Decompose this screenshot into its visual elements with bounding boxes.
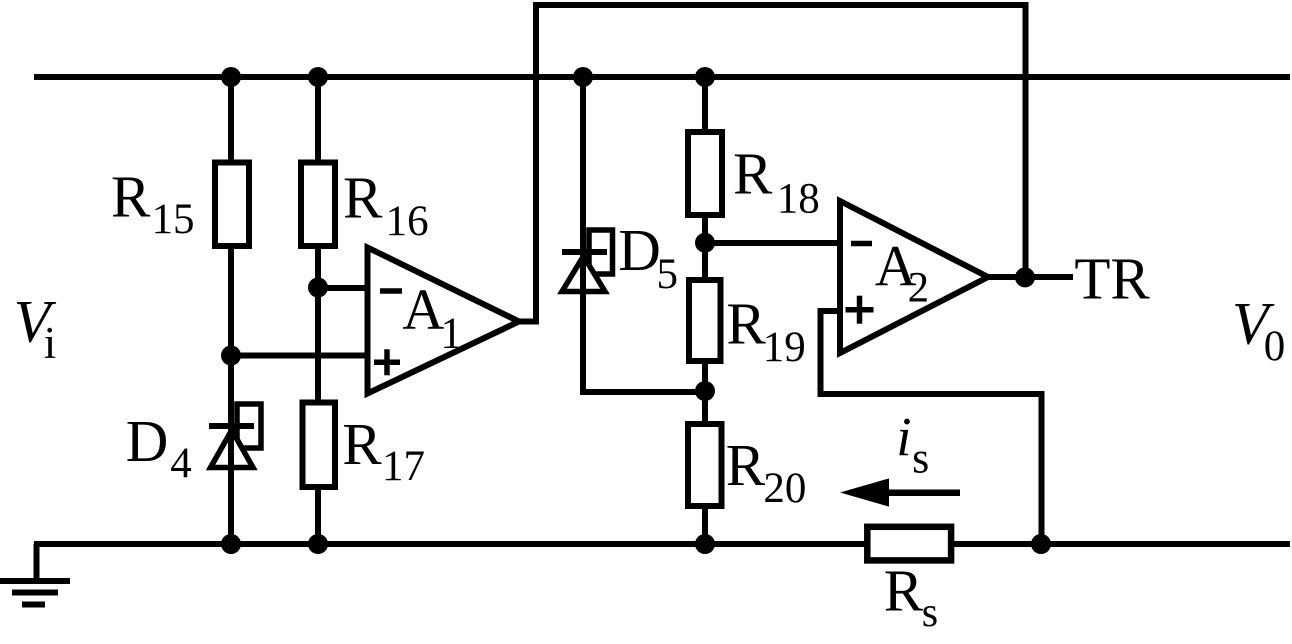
svg-text:19: 19 [763, 324, 806, 371]
svg-text:15: 15 [152, 196, 195, 243]
svg-text:D: D [126, 408, 169, 474]
svg-text:R: R [726, 432, 766, 498]
svg-text:17: 17 [382, 443, 425, 490]
svg-text:R: R [111, 164, 151, 230]
svg-text:i: i [896, 406, 911, 467]
svg-text:4: 4 [170, 440, 192, 487]
svg-text:A: A [402, 277, 444, 342]
svg-text:D: D [618, 217, 661, 283]
svg-text:TR: TR [1074, 246, 1150, 312]
svg-text:i: i [44, 318, 57, 368]
svg-text:0: 0 [1264, 323, 1286, 370]
svg-text:1: 1 [440, 309, 462, 358]
svg-text:R: R [342, 411, 382, 477]
svg-text:16: 16 [386, 198, 429, 245]
svg-text:s: s [922, 590, 938, 636]
svg-text:R: R [726, 291, 766, 357]
svg-text:20: 20 [763, 465, 806, 512]
svg-text:R: R [884, 558, 924, 624]
svg-text:2: 2 [908, 265, 930, 312]
svg-text:s: s [912, 434, 929, 483]
svg-text:18: 18 [777, 175, 820, 222]
svg-text:5: 5 [657, 251, 679, 298]
svg-text:R: R [343, 165, 383, 231]
svg-text:R: R [733, 141, 773, 207]
